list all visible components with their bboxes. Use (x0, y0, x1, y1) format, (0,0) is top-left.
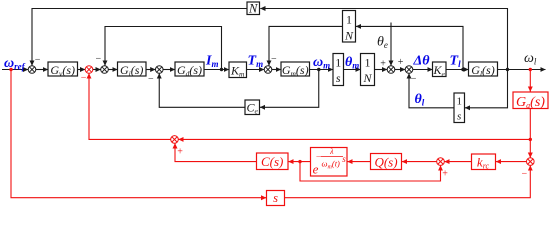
node omega_l junction (black feedbacks) (506, 68, 509, 71)
wire omega_l branch into Ga (529, 70, 531, 92)
block Gl(s) load (469, 62, 498, 76)
wire sum B to sum C (93, 69, 101, 71)
block krc red gain (472, 154, 496, 170)
wire sum E to Gm (272, 69, 281, 71)
wire s block output up into red sum J (285, 166, 531, 198)
svg-text:−: − (411, 73, 417, 84)
block Km torque constant (229, 62, 247, 78)
wire sum C to Gi (108, 69, 117, 71)
wire sum G to Ke (413, 69, 433, 71)
svg-text:Ga(s): Ga(s) (516, 95, 545, 110)
node omega_l junction (red Ga tap) (529, 68, 532, 71)
block Ke stiffness (433, 62, 447, 77)
block 1/s motor integrator (333, 54, 344, 86)
wire omega_m branch down to Ce block (260, 70, 319, 108)
wire Ga output down into red sum J (529, 109, 531, 158)
block 1/s load integrator (454, 93, 465, 123)
wire 1/N to sum F (375, 69, 388, 71)
wire theta_l feedback into sum G (409, 73, 454, 107)
wire 1/N top block output into sum E (269, 26, 343, 65)
svg-text:Gd(s): Gd(s) (177, 63, 202, 78)
svg-text:−: − (35, 54, 41, 65)
wire krc to red sum I (444, 161, 471, 163)
wire sum D to Gd (163, 69, 175, 71)
sum C current-error junction (101, 66, 109, 74)
wire exp output positive feedback into red sum I (300, 162, 441, 181)
svg-text:1: 1 (335, 56, 341, 70)
wire exp delay output to Cs with branch node (288, 161, 310, 163)
wire Cs output up into red sum H (175, 143, 257, 161)
svg-text:N: N (248, 1, 258, 15)
wire red sum J to krc (496, 161, 527, 163)
svg-text:Δθ: Δθ (413, 54, 431, 69)
wire omega_l down to load integrator 1/s (465, 70, 508, 108)
sum D back-emf junction (155, 66, 163, 74)
svg-text:s: s (342, 154, 346, 164)
node Ga output branch junction (529, 138, 532, 141)
wire red sum I to Qs (402, 161, 437, 163)
svg-text:+: + (398, 57, 404, 68)
svg-text:s: s (273, 191, 278, 205)
block Ce back-emf coefficient (245, 100, 260, 115)
sum G position-error junction (405, 66, 413, 74)
wire Im current feedback into sum C (105, 27, 222, 70)
sum J red junction (527, 158, 535, 166)
node Tl junction (461, 68, 464, 71)
wire Ce output into sum D (159, 73, 245, 107)
block s red differentiator (267, 191, 285, 206)
wire red sum H output up into red sum B (89, 73, 171, 139)
svg-text:+: + (442, 168, 448, 179)
block Gm(s) motor (281, 62, 310, 76)
wire N block output down into sum A (32, 9, 247, 66)
wire Tl branch up into 1/N top block (356, 26, 463, 69)
svg-text:N: N (344, 28, 354, 42)
svg-text:−: − (522, 169, 528, 180)
svg-text:+: + (380, 58, 386, 69)
block C(s) red compensator (257, 153, 289, 170)
svg-text:−: − (81, 72, 87, 83)
svg-text:N: N (362, 71, 372, 85)
block 1/N gear ratio (361, 54, 375, 86)
sum E torque junction (264, 66, 272, 74)
svg-text:1: 1 (346, 13, 352, 27)
sum F theta_e junction (387, 66, 395, 74)
node omega_ref branch junction (9, 68, 12, 71)
svg-text:e: e (313, 162, 319, 177)
block exp delay e^(-lambda/omega_m(t) s) (311, 148, 348, 177)
svg-text:C(s): C(s) (261, 154, 283, 169)
block Q(s) red filter (371, 154, 402, 170)
sum B red compensation junction (85, 66, 93, 74)
wire theta_e disturbance into sum F (390, 23, 392, 66)
wire Gi to sum D (146, 69, 155, 71)
wire Ga output left into red sum H (178, 138, 530, 140)
svg-text:−: − (148, 74, 154, 85)
block Ga(s) red acceleration model (513, 92, 548, 109)
svg-text:Gv(s): Gv(s) (50, 63, 75, 78)
block Gi(s) current controller (118, 62, 147, 76)
node exp output branch junction (298, 160, 301, 163)
block 1/N top torque reflection (343, 11, 356, 43)
svg-text:−: − (96, 54, 102, 65)
wire Gd to Km with Im branch node (204, 69, 229, 71)
svg-text:Gi(s): Gi(s) (120, 63, 143, 78)
block N gear ratio feedback (247, 2, 260, 15)
svg-text:s: s (457, 111, 461, 123)
svg-text:1: 1 (365, 56, 371, 70)
wire Gv to red sum B (78, 69, 86, 71)
wire omega_ref input into sum A (2, 69, 28, 71)
block Gv(s) speed controller (48, 62, 78, 76)
sum A speed-error junction (28, 66, 36, 74)
sum H red junction (171, 136, 179, 144)
wire Km to sum E (247, 69, 265, 71)
svg-text:1: 1 (456, 96, 462, 108)
wire Gl to omega_l output (498, 69, 546, 71)
node Im junction (220, 68, 223, 71)
wire Ke to Gl with Tl branch node (446, 69, 469, 71)
wire omega_ref branch down into s block (11, 70, 266, 198)
wire sum A to Gv (36, 69, 48, 71)
block Gd(s) driver (175, 62, 204, 76)
wire sum F to sum G (395, 69, 405, 71)
sum I red junction (437, 158, 445, 166)
svg-text:−: − (316, 152, 321, 161)
svg-text:λ: λ (329, 147, 334, 156)
svg-text:Gl(s): Gl(s) (471, 63, 494, 78)
svg-text:Q(s): Q(s) (374, 154, 397, 169)
svg-text:−: − (271, 54, 277, 65)
wire 1/s to 1/N (344, 69, 361, 71)
svg-text:+: + (177, 146, 183, 157)
wire Qs to exp delay block (347, 161, 370, 163)
node omega_m junction (317, 68, 320, 71)
wire Gm to integrator 1/s with omega_m node (310, 69, 334, 71)
wire omega_l feedback up to N block (260, 9, 507, 70)
svg-text:Gm(s): Gm(s) (282, 63, 309, 78)
svg-text:s: s (336, 71, 341, 85)
